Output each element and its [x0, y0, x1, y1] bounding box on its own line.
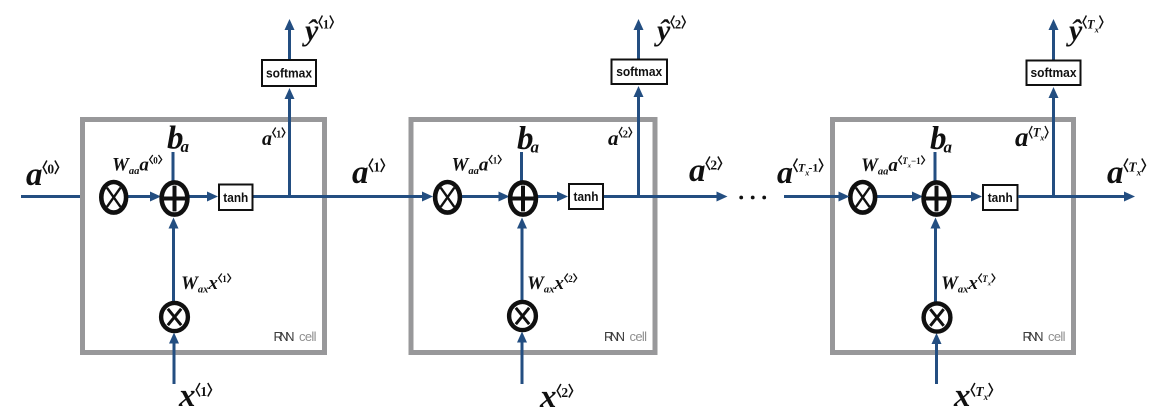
svg-text:aa: aa [468, 166, 479, 177]
svg-text:W: W [861, 155, 879, 176]
tanh box cell 2 [569, 184, 603, 209]
svg-text:a: a [531, 138, 540, 157]
add node cell 2 [510, 182, 536, 214]
svg-text:RNN: RNN [1023, 329, 1044, 344]
svg-text:softmax: softmax [266, 67, 312, 81]
ellipsis dots [739, 196, 743, 200]
RNN cell box 1 [83, 120, 325, 353]
svg-text:x: x [967, 273, 978, 294]
wire branch up to softmax cell 2 [637, 96, 640, 199]
svg-text:ŷ: ŷ [1066, 14, 1083, 47]
svg-text:x: x [983, 392, 989, 402]
wire x input arrow cell 3 [935, 343, 938, 385]
svg-text:0: 0 [47, 162, 54, 177]
RNN cell box 3 [833, 120, 1074, 353]
wire multiply to add cell 1 [127, 195, 151, 198]
svg-text:x: x [539, 379, 557, 415]
svg-text:cell: cell [1048, 329, 1066, 344]
svg-text:tanh: tanh [223, 190, 248, 205]
svg-text:1: 1 [323, 18, 329, 32]
svg-text:1: 1 [493, 156, 498, 166]
multiply node (W_aa) cell 3 [850, 182, 875, 213]
wire multiply to add cell 3 [876, 195, 913, 198]
wire softmax to y-hat cell 2 [637, 29, 640, 59]
wire add to tanh cell 2 [537, 195, 559, 198]
wire tanh3 output a<Tx> [1018, 195, 1126, 198]
tanh box cell 1 [219, 185, 253, 211]
svg-text:aa: aa [129, 166, 140, 177]
svg-text:a: a [689, 153, 706, 189]
svg-text:x: x [553, 273, 564, 294]
multiply node (W_ax) cell 3 [924, 303, 951, 331]
svg-text:1: 1 [373, 160, 380, 175]
svg-text:a: a [352, 155, 369, 191]
svg-text:2: 2 [623, 130, 628, 141]
svg-text:tanh: tanh [574, 189, 599, 204]
svg-text:x: x [1136, 168, 1142, 178]
svg-text:cell: cell [630, 329, 648, 344]
add node cell 3 [924, 182, 950, 214]
wire multiply up to add node cell 3 [934, 227, 937, 303]
wire add to tanh cell 3 [951, 195, 973, 198]
wire x input arrow cell 1 [173, 342, 176, 384]
svg-text:RNN: RNN [604, 329, 625, 344]
multiply node (W_aa) cell 1 [101, 182, 126, 213]
wire b_a into add node cell 2 [520, 152, 523, 191]
svg-text:softmax: softmax [616, 65, 662, 79]
wire x input arrow cell 2 [521, 341, 524, 384]
wire softmax to y-hat cell 1 [288, 29, 291, 60]
svg-text:a: a [479, 155, 489, 176]
softmax box cell 3 [1027, 61, 1081, 86]
wire a<Tx-1> into cell 3 [784, 195, 840, 198]
wire tanh2 output toward dots (a<2>) [604, 195, 718, 198]
svg-text:W: W [181, 273, 199, 294]
svg-text:ŷ: ŷ [654, 14, 671, 47]
svg-text:softmax: softmax [1031, 66, 1077, 80]
svg-text:tanh: tanh [988, 190, 1013, 205]
wire b_a into add node cell 3 [934, 152, 937, 191]
svg-text:x: x [178, 378, 196, 414]
wire multiply to add cell 2 [461, 195, 500, 198]
svg-text:a: a [139, 155, 149, 176]
svg-text:W: W [527, 273, 545, 294]
svg-text:a: a [1107, 155, 1124, 191]
svg-text:2: 2 [561, 385, 568, 400]
svg-text:2: 2 [675, 18, 681, 32]
svg-text:W: W [452, 155, 470, 176]
add node cell 1 [162, 182, 188, 214]
RNN cell box 2 [411, 120, 655, 353]
svg-text:ax: ax [544, 285, 555, 296]
softmax box cell 1 [262, 60, 316, 86]
svg-text:x: x [987, 281, 992, 288]
wire branch up to softmax cell 1 [288, 98, 291, 199]
multiply node (W_aa) cell 2 [435, 182, 460, 213]
svg-text:−1: −1 [911, 156, 921, 166]
wire softmax to y-hat cell 3 [1052, 29, 1055, 60]
svg-text:aa: aa [878, 167, 889, 178]
wire add to tanh cell 1 [189, 195, 209, 198]
svg-text:x: x [1094, 25, 1100, 35]
svg-text:RNN: RNN [274, 329, 295, 344]
svg-text:a: a [181, 137, 190, 156]
svg-text:0: 0 [153, 156, 158, 166]
wire multiply up to add node cell 1 [172, 227, 175, 303]
svg-text:2: 2 [568, 274, 573, 284]
tanh box cell 3 [983, 185, 1018, 210]
svg-text:cell: cell [299, 329, 317, 344]
svg-text:ŷ: ŷ [302, 14, 319, 47]
svg-text:a: a [608, 126, 619, 150]
svg-text:a: a [262, 128, 272, 150]
svg-text:a: a [944, 138, 953, 157]
svg-text:1: 1 [276, 130, 281, 141]
svg-text:x: x [207, 273, 218, 294]
svg-text:a: a [1015, 122, 1029, 152]
wire a<0> input arrow [21, 195, 88, 198]
wire b_a into add node cell 1 [172, 152, 175, 191]
svg-text:a: a [26, 157, 43, 193]
svg-text:1: 1 [200, 384, 207, 399]
wire multiply up to add node cell 2 [521, 227, 524, 302]
svg-text:ax: ax [958, 285, 969, 296]
svg-text:W: W [941, 273, 959, 294]
svg-text:1: 1 [222, 274, 227, 284]
svg-text:x: x [1039, 134, 1044, 143]
multiply node (W_ax) cell 2 [509, 302, 536, 330]
svg-text:ax: ax [198, 285, 209, 296]
wire branch up to softmax cell 3 [1052, 97, 1055, 199]
svg-text:a: a [777, 154, 793, 190]
multiply node (W_ax) cell 1 [161, 303, 188, 331]
svg-text:a: a [888, 155, 898, 176]
svg-text:-1: -1 [808, 161, 818, 175]
svg-text:2: 2 [710, 158, 717, 173]
wire tanh1 output to cell 2 (a<1>) [254, 195, 424, 198]
svg-text:x: x [953, 378, 971, 414]
softmax box cell 2 [612, 60, 668, 85]
svg-text:W: W [112, 155, 130, 176]
